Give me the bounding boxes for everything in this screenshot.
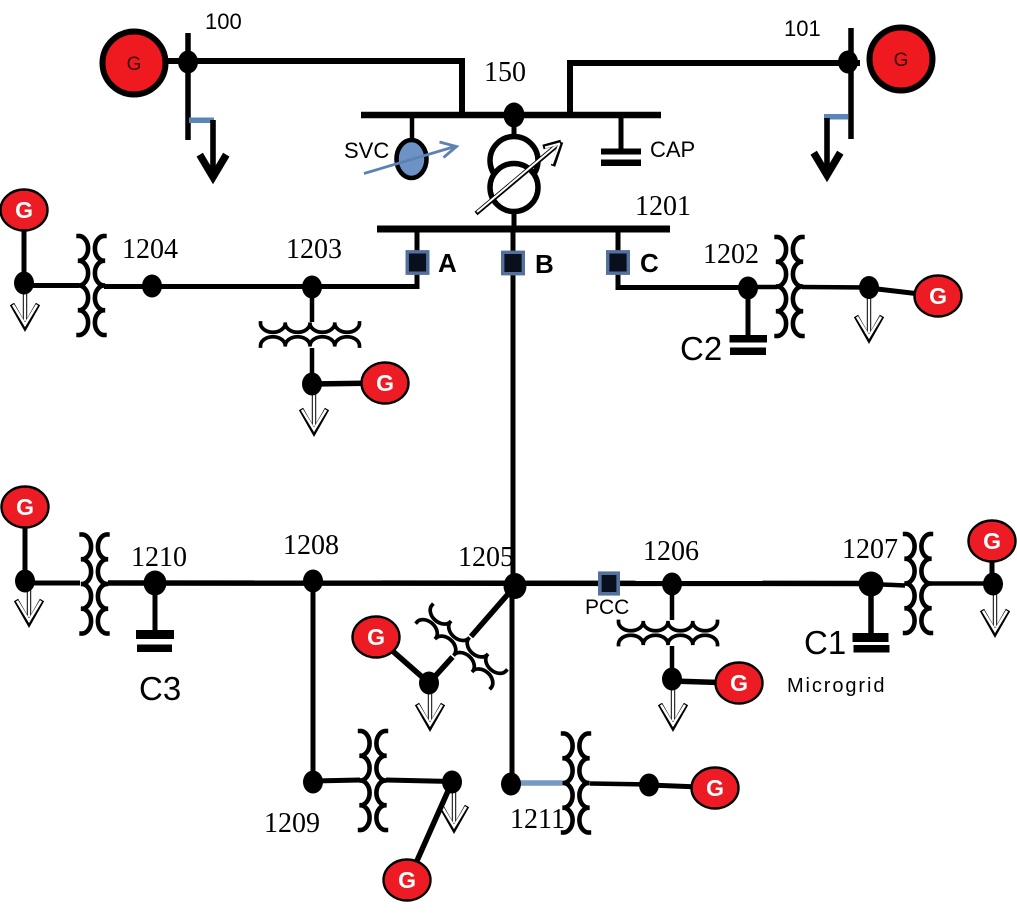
svg-text:1206: 1206 — [643, 536, 699, 567]
svg-text:SVC: SVC — [344, 138, 389, 163]
svg-text:150: 150 — [484, 57, 526, 88]
svg-text:B: B — [535, 249, 554, 279]
svg-text:C2: C2 — [680, 330, 722, 367]
svg-text:1208: 1208 — [283, 530, 339, 561]
svg-text:1204: 1204 — [122, 234, 178, 265]
svg-text:1209: 1209 — [264, 808, 320, 839]
svg-text:1205: 1205 — [458, 542, 514, 573]
svg-text:100: 100 — [205, 9, 242, 34]
svg-text:PCC: PCC — [585, 596, 629, 619]
svg-text:C: C — [640, 248, 659, 278]
svg-text:CAP: CAP — [650, 137, 695, 162]
svg-text:Microgrid: Microgrid — [787, 675, 886, 697]
svg-text:C3: C3 — [139, 670, 181, 707]
svg-text:1211: 1211 — [510, 804, 565, 835]
svg-text:1203: 1203 — [286, 234, 342, 265]
svg-text:1207: 1207 — [842, 534, 898, 565]
svg-text:1201: 1201 — [635, 191, 691, 222]
svg-text:101: 101 — [784, 16, 821, 41]
svg-text:C1: C1 — [804, 624, 846, 661]
svg-text:A: A — [438, 248, 457, 278]
svg-text:1202: 1202 — [703, 239, 759, 270]
svg-text:1210: 1210 — [131, 542, 187, 573]
